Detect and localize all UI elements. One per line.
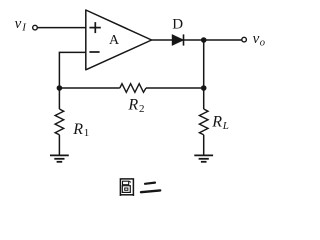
resistor R1 [55,109,64,135]
label vo [253,31,265,48]
node output junction [201,37,207,43]
ground right [194,155,213,161]
ground left [50,155,69,161]
svg-text:o: o [260,38,265,49]
op-amp A [86,10,152,70]
wire output node down to RL [203,40,205,109]
resistor RL [199,109,208,135]
wire R2 right [146,87,204,89]
label R1 [72,121,89,139]
svg-text:v: v [253,31,260,47]
wire vI to op-amp + input [37,27,86,29]
terminal vI [33,25,38,30]
svg-text:L: L [222,120,229,132]
svg-text:2: 2 [139,103,145,115]
resistor R2 [120,84,146,93]
wire R1 to ground [58,135,60,156]
wire - input to feedback node [59,52,85,88]
node feedback left [57,85,63,91]
wire op-amp output to diode [152,39,173,41]
svg-text:A: A [109,33,120,48]
svg-text:R: R [211,113,222,130]
wire R2 left [59,87,119,89]
wire RL to ground [203,135,205,156]
caption figure 2 (二) [141,183,160,193]
node feedback right [201,85,207,91]
caption figure 2 (圖) [120,179,133,196]
diode D [172,34,183,45]
wire diode to vo [184,39,242,41]
label RL [211,113,229,132]
svg-text:D: D [172,17,183,33]
label vI [15,16,28,33]
svg-text:v: v [15,16,22,32]
wire feedback node down to R1 [58,88,60,109]
terminal vo [242,37,247,42]
svg-text:R: R [72,121,83,138]
label R2 [127,97,144,115]
svg-text:1: 1 [84,127,90,139]
svg-text:R: R [127,97,138,114]
